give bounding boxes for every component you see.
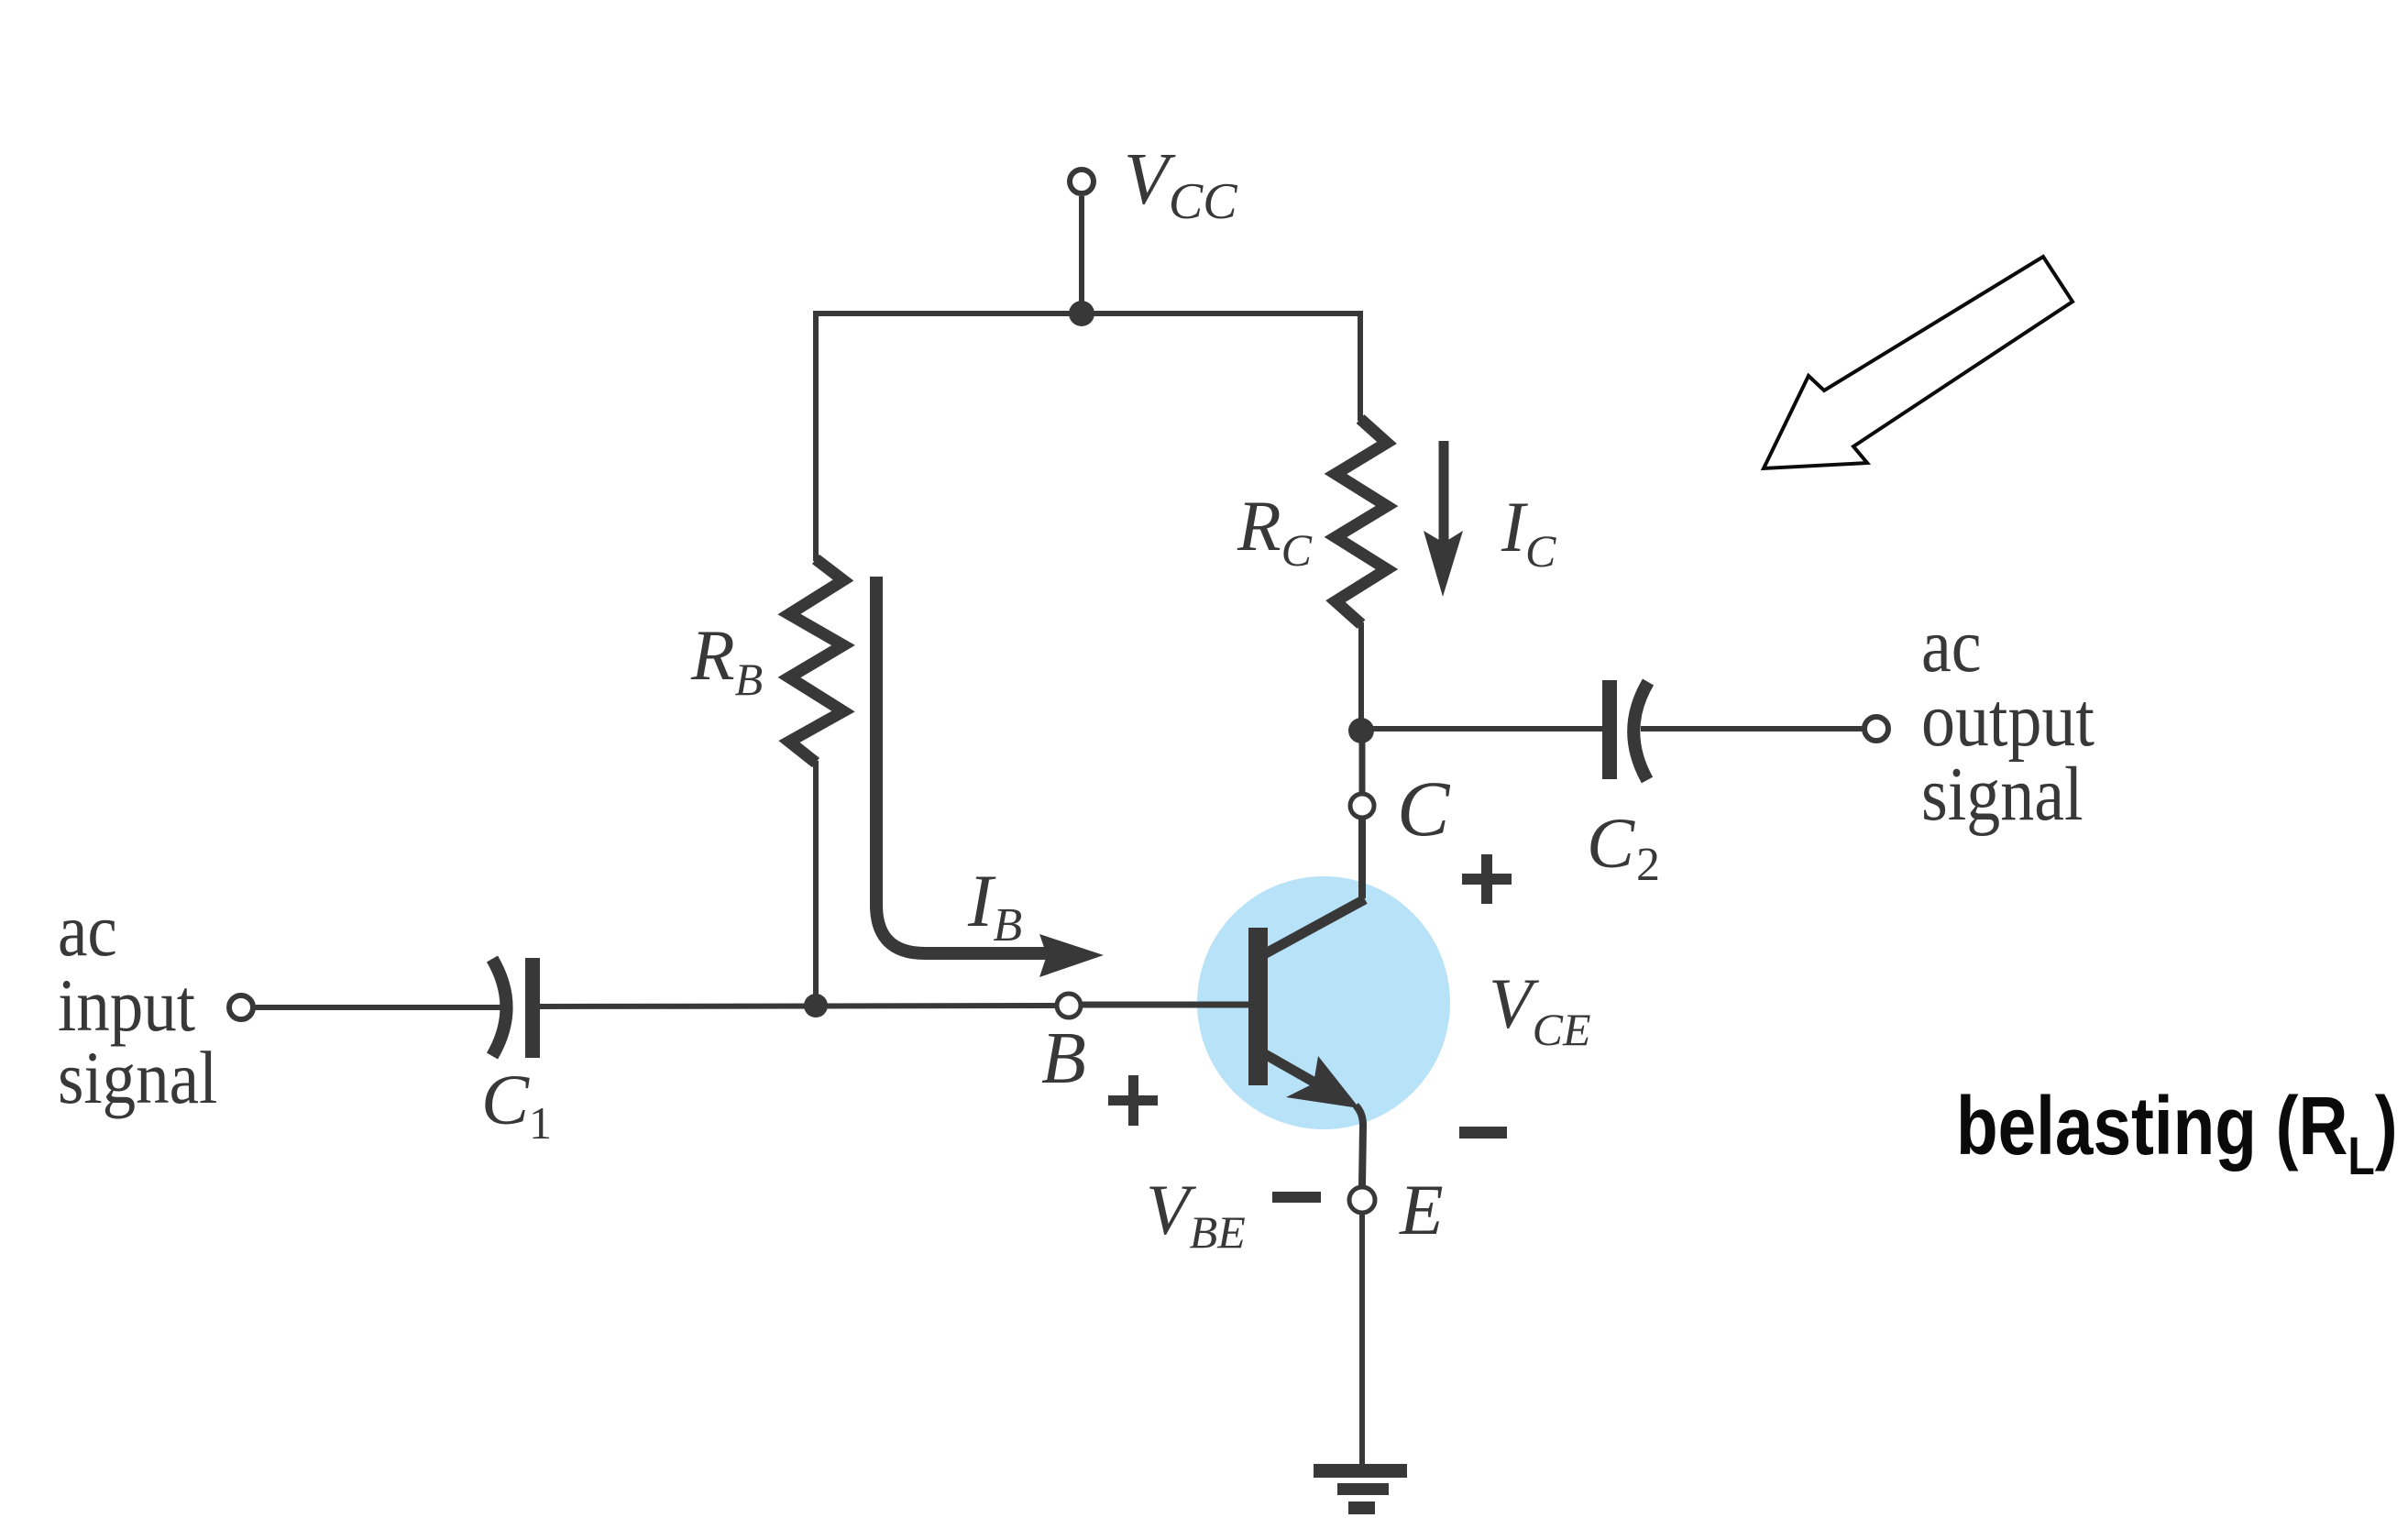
wire RC top [1358, 311, 1363, 421]
junction collector node [1348, 718, 1374, 743]
transistor Q1 emitter arrowhead [1286, 1056, 1359, 1108]
wire RB bottom [813, 761, 819, 1006]
plus sign at base [1108, 1095, 1158, 1105]
wire emitter to ground [1359, 1213, 1365, 1469]
minus sign VCE [1459, 1127, 1507, 1138]
svg-text:signal: signal [1921, 752, 2084, 837]
svg-text:VCE: VCE [1489, 963, 1591, 1055]
svg-text:RC: RC [1237, 486, 1313, 576]
svg-text:IB: IB [967, 859, 1022, 951]
wire emitter to E [1356, 1105, 1363, 1186]
transistor Q1 base bar [1248, 928, 1268, 1085]
resistor RC [1336, 419, 1387, 624]
label belasting (RL) [1956, 1079, 2398, 1186]
svg-text:VBE: VBE [1146, 1170, 1246, 1258]
svg-text:belasting (RL): belasting (RL) [1956, 1079, 2398, 1186]
label ac input signal [58, 888, 217, 1119]
minus sign VBE [1272, 1192, 1321, 1203]
svg-text:C2: C2 [1587, 803, 1660, 891]
wire collector to C terminal [1359, 731, 1366, 792]
svg-text:output: output [1921, 677, 2095, 763]
capacitor C2 [1602, 680, 1617, 779]
annotation arrow (outlined, pointing lower-left) [1764, 257, 2073, 468]
wire top rail [816, 311, 1360, 316]
resistor RB [789, 559, 843, 763]
svg-text:ac: ac [1921, 603, 1982, 688]
current arrow IC [1439, 441, 1449, 550]
node E terminal [1349, 1187, 1375, 1213]
wire C to collector lead [1358, 819, 1366, 898]
svg-text:VCC: VCC [1124, 139, 1237, 230]
node C terminal [1350, 794, 1374, 818]
wire C2 to output terminal [1641, 726, 1864, 731]
wire VCC stem [1079, 196, 1084, 313]
current arrow IB [876, 577, 1056, 953]
capacitor C1 [492, 959, 507, 1056]
ground [1314, 1464, 1407, 1478]
svg-text:signal: signal [58, 1036, 217, 1119]
wire RB top [813, 311, 819, 561]
svg-text:input: input [58, 963, 195, 1047]
transistor Q1 collector lead [1264, 899, 1365, 954]
wire input to C1 [254, 1005, 503, 1010]
svg-text:E: E [1399, 1170, 1444, 1249]
svg-text:C1: C1 [481, 1060, 552, 1149]
wire output rail [1361, 726, 1603, 731]
output terminal [1864, 717, 1888, 741]
wire RC bottom [1358, 622, 1364, 731]
junction base node [804, 994, 828, 1017]
svg-text:IC: IC [1501, 487, 1556, 577]
svg-text:ac: ac [58, 888, 117, 972]
wire B to base bar [1083, 1002, 1248, 1008]
svg-text:C: C [1397, 764, 1451, 852]
wire C1 to B [540, 1006, 1055, 1006]
svg-text:RB: RB [690, 615, 763, 705]
power terminal VCC [1070, 170, 1094, 193]
transistor Q1 highlight circle [1197, 876, 1450, 1129]
label ac output signal [1921, 603, 2095, 837]
transistor Q1 emitter lead [1265, 1054, 1331, 1092]
plus sign VCE [1462, 874, 1512, 885]
input terminal [229, 995, 253, 1019]
node B terminal [1057, 994, 1081, 1017]
junction VCC node [1069, 301, 1094, 326]
svg-text:B: B [1041, 1018, 1086, 1099]
